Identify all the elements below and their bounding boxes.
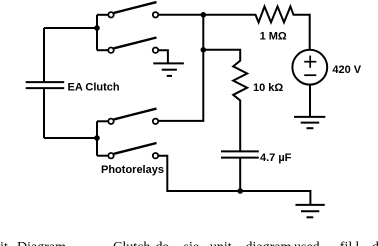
svg-text:1 MΩ: 1 MΩ	[260, 30, 287, 42]
svg-text:unit: unit	[210, 240, 232, 246]
svg-text:sie: sie	[184, 240, 200, 246]
svg-text:4.7 µF: 4.7 µF	[260, 152, 292, 164]
svg-text:Photorelays: Photorelays	[101, 164, 164, 176]
svg-text:Diagram: Diagram	[17, 240, 66, 246]
svg-text:used: used	[294, 240, 320, 246]
svg-text:l: l	[355, 240, 359, 246]
svg-text:Clutch: Clutch	[113, 240, 150, 246]
svg-text:de: de	[156, 240, 169, 246]
svg-text:diagram: diagram	[246, 240, 292, 246]
svg-text:Circuit: Circuit	[0, 240, 8, 246]
svg-text:EA Clutch: EA Clutch	[68, 81, 120, 93]
svg-text:fil: fil	[340, 240, 353, 246]
svg-text:420 V: 420 V	[332, 64, 361, 76]
svg-text:10 kΩ: 10 kΩ	[253, 82, 283, 94]
svg-text:d: d	[372, 240, 378, 246]
